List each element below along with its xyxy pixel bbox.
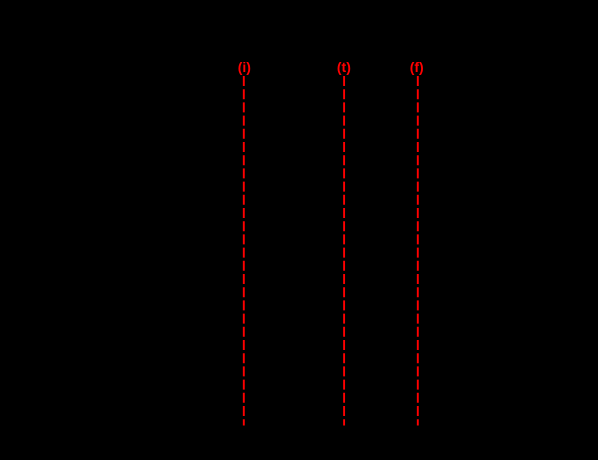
svg-text:(i): (i): [238, 59, 251, 75]
svg-text:(f): (f): [410, 59, 424, 75]
svg-text:(t): (t): [337, 59, 351, 75]
